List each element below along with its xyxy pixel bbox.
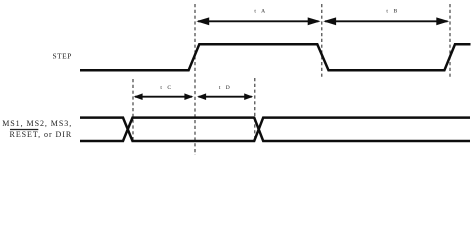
dashed guide line at STEP falling edge (x=321.8) [321,4,323,78]
command bus waveform upper trace (with crossovers) [80,118,470,141]
dimension arrow tA (STEP high time) [196,17,320,25]
svg-text:B: B [394,9,398,15]
command bus waveform lower trace (with crossovers) [80,118,470,141]
overline above RESET [10,129,38,131]
STEP waveform [80,44,471,70]
dashed guide line at end of first command crossover (x=133) [132,79,134,140]
dimension arrow tB (STEP low time) [323,17,449,25]
dashed guide line at first STEP rising edge (x=195) [194,4,196,155]
svg-text:C: C [167,85,171,91]
svg-text:D: D [226,85,230,91]
dimension arrow tC (setup time) [134,93,194,100]
dimension arrow tD (hold time) [197,93,253,100]
dashed guide line at second STEP rising edge (x=450) [449,4,451,78]
svg-text:A: A [261,9,265,15]
dashed guide line at start of second command crossover (x=254.8) [254,78,256,140]
svg-text:MS1, MS2, MS3,: MS1, MS2, MS3, [2,119,72,128]
svg-text:RESET, or DIR: RESET, or DIR [10,130,73,139]
svg-text:STEP: STEP [52,52,71,61]
